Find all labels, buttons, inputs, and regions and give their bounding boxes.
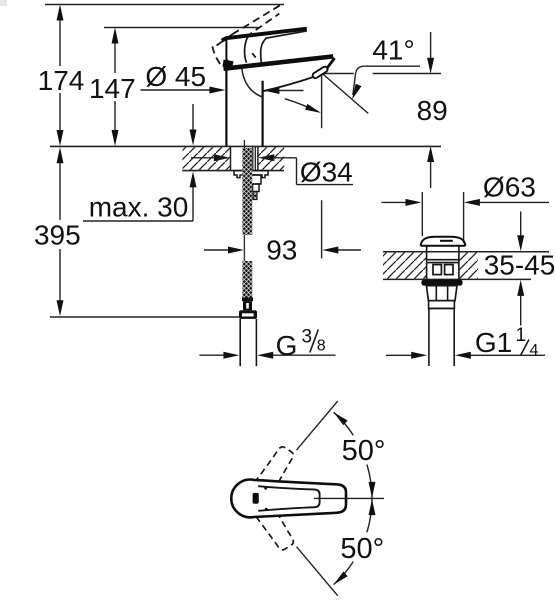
cap front edge (226, 40, 231, 67)
body left edge (225, 64, 227, 146)
flexible hose lower braid (242, 261, 252, 298)
swivel arc with arrow (285, 99, 319, 112)
body right edge (262, 81, 264, 146)
svg-text:Ø34: Ø34 (300, 157, 353, 188)
svg-text:max. 30: max. 30 (89, 192, 189, 223)
50 deg arc upper (334, 412, 386, 498)
svg-text:174: 174 (38, 65, 85, 96)
handle top view inner outline (258, 486, 319, 511)
drain counter hatch right (460, 253, 478, 279)
svg-text:35-45: 35-45 (484, 250, 556, 281)
cap neck (426, 246, 428, 252)
drain hex nut (426, 286, 457, 301)
corner smudge (0, 0, 7, 6)
svg-text:Ø 45: Ø 45 (145, 61, 206, 92)
drain counter bottom line (383, 278, 531, 280)
overflow windows (433, 265, 441, 275)
svg-text:395: 395 (34, 220, 81, 251)
spout underside (263, 77, 314, 91)
interior arc of body (242, 69, 263, 97)
dimension 89 (417, 32, 448, 188)
shank right edge (257, 146, 259, 170)
drain step ring (429, 301, 455, 309)
svg-text:147: 147 (89, 73, 136, 104)
dimension Ø45 (140, 61, 303, 94)
dimension 395 (34, 147, 81, 316)
spout top edge (224, 56, 334, 68)
hose center line inside body (243, 140, 245, 148)
50 deg line upper (297, 401, 338, 450)
svg-text:4: 4 (530, 342, 539, 359)
top reference line (174) (45, 4, 284, 6)
counter bottom line (182, 170, 284, 172)
shank left edge (230, 146, 232, 170)
svg-text:G: G (276, 330, 298, 361)
svg-text:8: 8 (317, 338, 326, 355)
counter top line (50, 145, 441, 147)
svg-text:41°: 41° (372, 35, 414, 66)
dashed handle rotated down 50 (248, 494, 298, 554)
hose ferrule (242, 298, 253, 302)
extension line from aerator (321, 74, 323, 128)
cap slot (440, 240, 453, 242)
threaded stud lines (252, 146, 254, 170)
mounting nut step 1 (251, 175, 261, 184)
drain body through counter (427, 252, 459, 280)
hose break center line (243, 235, 245, 261)
dimension 93 (204, 200, 361, 265)
dimension 41 deg (352, 35, 420, 100)
dashed raised lever (212, 5, 281, 67)
handle logo slot (253, 493, 259, 504)
dimension Ø34 with leader (191, 154, 353, 187)
svg-text:Ø63: Ø63 (483, 171, 536, 202)
cartridge cap dome arc (245, 37, 248, 63)
spout tip face (327, 58, 335, 68)
svg-text:89: 89 (417, 95, 448, 126)
dashed handle rotated up 50 (248, 444, 298, 504)
hose nut (239, 310, 257, 319)
hose crimp (243, 301, 252, 310)
dimension G1 1/4 (386, 325, 545, 359)
svg-text:1: 1 (516, 325, 527, 346)
mounting nut step 3 (253, 192, 257, 200)
dimension G 3/8 (199, 327, 335, 362)
svg-text:50°: 50° (342, 435, 386, 467)
center line (314, 497, 384, 499)
reference line 147 (104, 27, 258, 29)
drain counter hatch left (383, 253, 427, 279)
aerator (312, 66, 329, 79)
50 deg line lower (297, 547, 338, 596)
stream diagonal at 41 deg (322, 74, 368, 114)
handle dots (264, 487, 267, 490)
dimension Ø63 (382, 171, 550, 243)
drain counter top line (383, 251, 549, 253)
dimension 35-45 (484, 212, 556, 326)
mounting nut step 2 (253, 184, 259, 192)
svg-text:50°: 50° (340, 533, 384, 565)
dimension 174 (38, 5, 85, 147)
bottom reference line (395) (50, 316, 239, 318)
dimension 147 (89, 28, 136, 147)
counter hatch left of shank (183, 147, 231, 170)
svg-text:93: 93 (266, 234, 297, 265)
svg-text:G1: G1 (475, 327, 512, 358)
mounting washer (234, 171, 268, 178)
cap bottom wedge (222, 60, 233, 69)
handle lever top edge (222, 29, 307, 41)
stream reference line (horizontal) (322, 73, 353, 75)
dimension max. 30 (83, 104, 197, 223)
drain locknut washer (421, 280, 462, 286)
50 deg arc lower (334, 498, 385, 584)
handle underside and neck (261, 31, 307, 64)
svg-text:3: 3 (302, 327, 313, 348)
drain tailpipe (428, 308, 430, 366)
flexible hose upper braid (242, 148, 252, 235)
drain flange cap (421, 237, 466, 246)
handle top view outline (231, 480, 346, 518)
connection tube G3/8 (239, 319, 241, 366)
counter hatch right of shank (258, 147, 284, 170)
